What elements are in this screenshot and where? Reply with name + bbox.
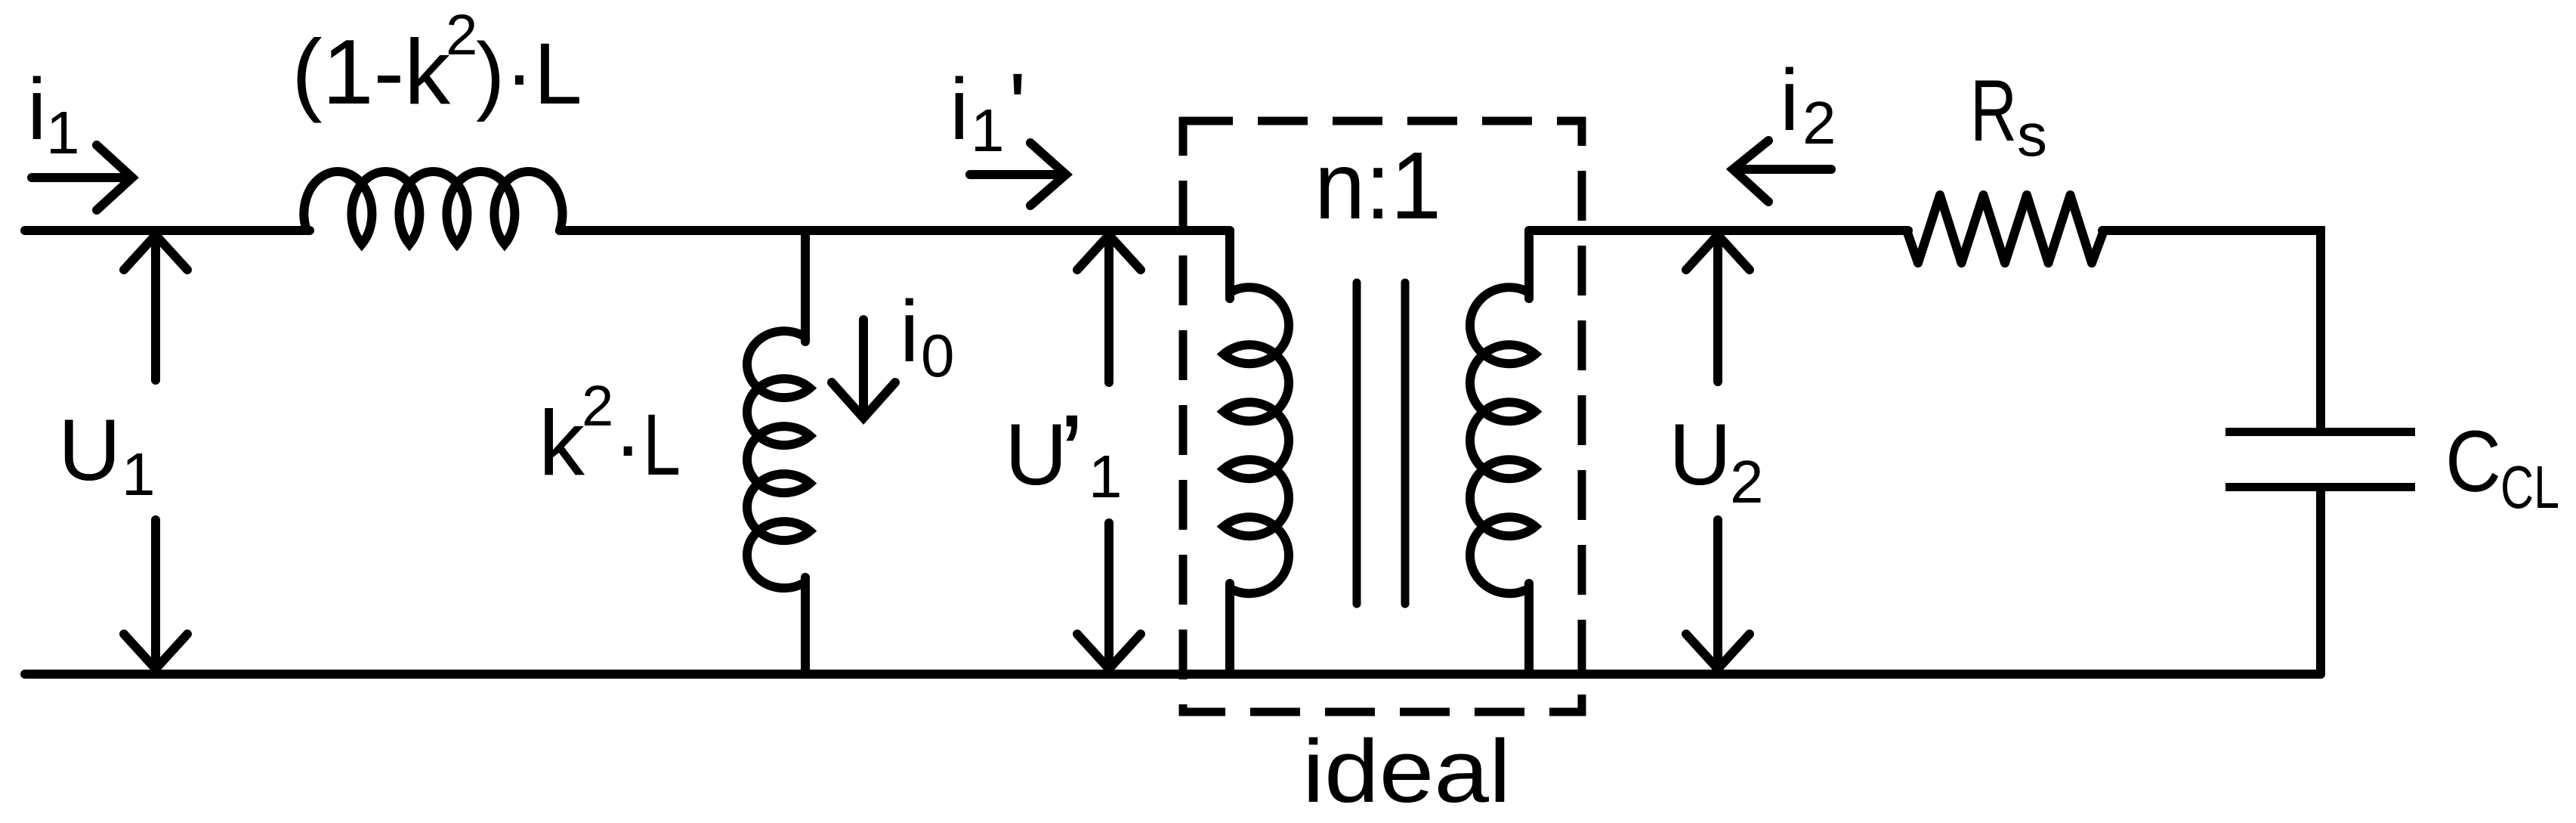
arrow i1' [970,143,1066,206]
svg-text:i: i [27,61,47,158]
arrow i1 [32,145,132,210]
transformer secondary top lead [1524,231,1534,299]
arrow U'1 lower [1077,523,1141,669]
wire shunt branch lower stub [801,577,810,674]
svg-text:L: L [643,397,681,493]
svg-text:1: 1 [971,97,1005,164]
arrow U2 upper [1686,235,1750,382]
arrow U1 upper [124,235,187,380]
arrow i2 [1733,141,1831,202]
transformer core line right [1401,283,1410,604]
svg-text:)·L: )·L [476,26,582,122]
arrow U2 lower [1686,520,1750,669]
bottom wire [25,670,2321,679]
svg-text:1: 1 [1089,443,1123,510]
svg-text:U: U [1005,407,1067,503]
svg-text:i: i [900,283,919,380]
svg-text:i: i [950,61,969,158]
wire top right segment (secondary to resistor) [1529,226,1908,235]
inductor k2L shunt coil [747,331,810,588]
wire top middle segment (coil to transformer primary) [560,226,1230,235]
svg-text:R: R [1970,63,2017,159]
svg-text:·: · [613,397,642,493]
svg-text:s: s [2017,101,2047,169]
svg-text:U: U [58,402,121,499]
arrow U1 lower [124,520,187,669]
svg-text:k: k [539,391,585,494]
transformer primary top lead [1225,231,1234,299]
svg-text:U: U [1669,407,1731,503]
svg-text:ideal: ideal [1302,722,1511,821]
ideal transformer dashed boundary box [1183,121,1582,712]
transformer primary bottom lead [1225,583,1234,674]
arrow U'1 upper [1077,235,1141,382]
transformer secondary bottom lead [1524,583,1534,674]
svg-text:(1-k: (1-k [292,20,451,123]
resistor Rs zigzag [1907,195,2104,263]
arrow i0 [832,320,895,418]
svg-text:0: 0 [921,322,955,389]
wire shunt branch upper stub [801,231,810,342]
transformer primary winding [1224,287,1289,593]
svg-text:1: 1 [122,441,156,508]
transformer core line left [1353,283,1361,604]
svg-text:C: C [2445,413,2501,510]
transformer secondary winding [1470,287,1535,593]
inductor (1-k2)L series coil [304,172,562,244]
svg-text:CL: CL [2500,453,2559,521]
svg-text:’: ’ [1059,391,1084,518]
capacitor CCL top plate [2225,428,2415,436]
svg-text:2: 2 [1802,89,1836,156]
wire right vertical lower (capacitor to bottom wire) [2316,491,2325,674]
wire top left segment [25,226,310,235]
svg-text:': ' [1008,54,1027,159]
svg-text:i: i [1780,52,1799,149]
svg-text:1: 1 [46,99,80,166]
capacitor CCL bottom plate [2225,483,2415,491]
svg-text:2: 2 [1730,448,1764,515]
svg-text:n:1: n:1 [1314,132,1441,239]
svg-text:2: 2 [446,3,477,67]
svg-text:2: 2 [582,374,613,438]
wire from resistor to top right corner [2102,231,2321,428]
